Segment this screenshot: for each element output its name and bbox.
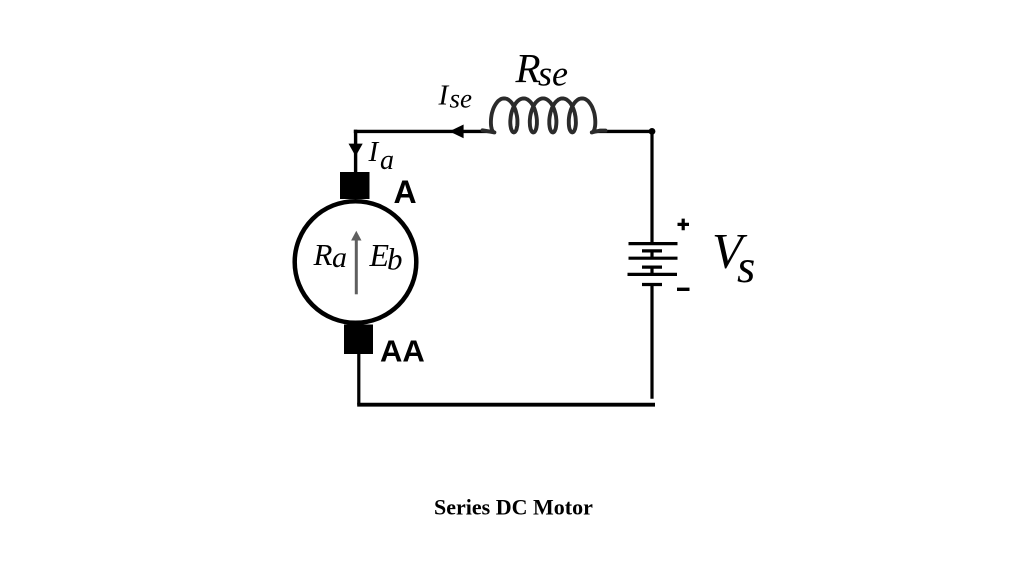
svg-text:b: b — [387, 242, 403, 277]
wire right vertical lower — [650, 286, 653, 399]
svg-text:I: I — [368, 136, 380, 168]
terminal block AA (bottom brush) — [344, 325, 373, 355]
minus sign — [677, 288, 690, 291]
battery long plate 2 — [629, 257, 678, 260]
battery short plate 1 — [642, 249, 662, 252]
arrow Ia (points down) — [349, 144, 363, 157]
svg-text:R: R — [313, 237, 333, 272]
battery short plate 3 — [642, 283, 662, 286]
svg-text:Series DC Motor: Series DC Motor — [434, 495, 593, 520]
plus sign — [678, 219, 690, 231]
wire top horizontal right segment — [596, 130, 652, 133]
arrow Eb (gray, points up, inside motor) — [355, 239, 358, 294]
inductor Rse coil — [483, 98, 606, 132]
terminal block A (top brush) — [340, 172, 370, 199]
battery long plate 3 — [628, 273, 678, 276]
svg-text:se: se — [450, 84, 473, 114]
svg-text:A: A — [394, 174, 417, 210]
svg-text:AA: AA — [380, 334, 425, 369]
junction dot top-right corner — [649, 128, 656, 135]
svg-text:a: a — [332, 241, 347, 274]
svg-text:a: a — [380, 145, 394, 176]
wire bottom horizontal — [357, 403, 655, 407]
svg-text:R: R — [515, 45, 541, 91]
svg-text:se: se — [538, 54, 568, 94]
svg-text:I: I — [438, 80, 450, 112]
battery short plate 2 — [642, 266, 662, 269]
motor armature circle — [295, 201, 417, 323]
wire left vertical top — [354, 130, 357, 173]
wire top horizontal left segment — [354, 130, 490, 133]
arrow Ise (points left on top wire) — [449, 125, 463, 139]
wire left vertical bottom — [357, 354, 360, 405]
battery stub short1 to long2 — [650, 251, 653, 258]
battery Vs: long plate 1 — [629, 242, 678, 245]
wire right vertical upper — [650, 131, 653, 242]
battery stub short2 to long3 — [650, 267, 653, 274]
svg-text:s: s — [737, 241, 755, 293]
